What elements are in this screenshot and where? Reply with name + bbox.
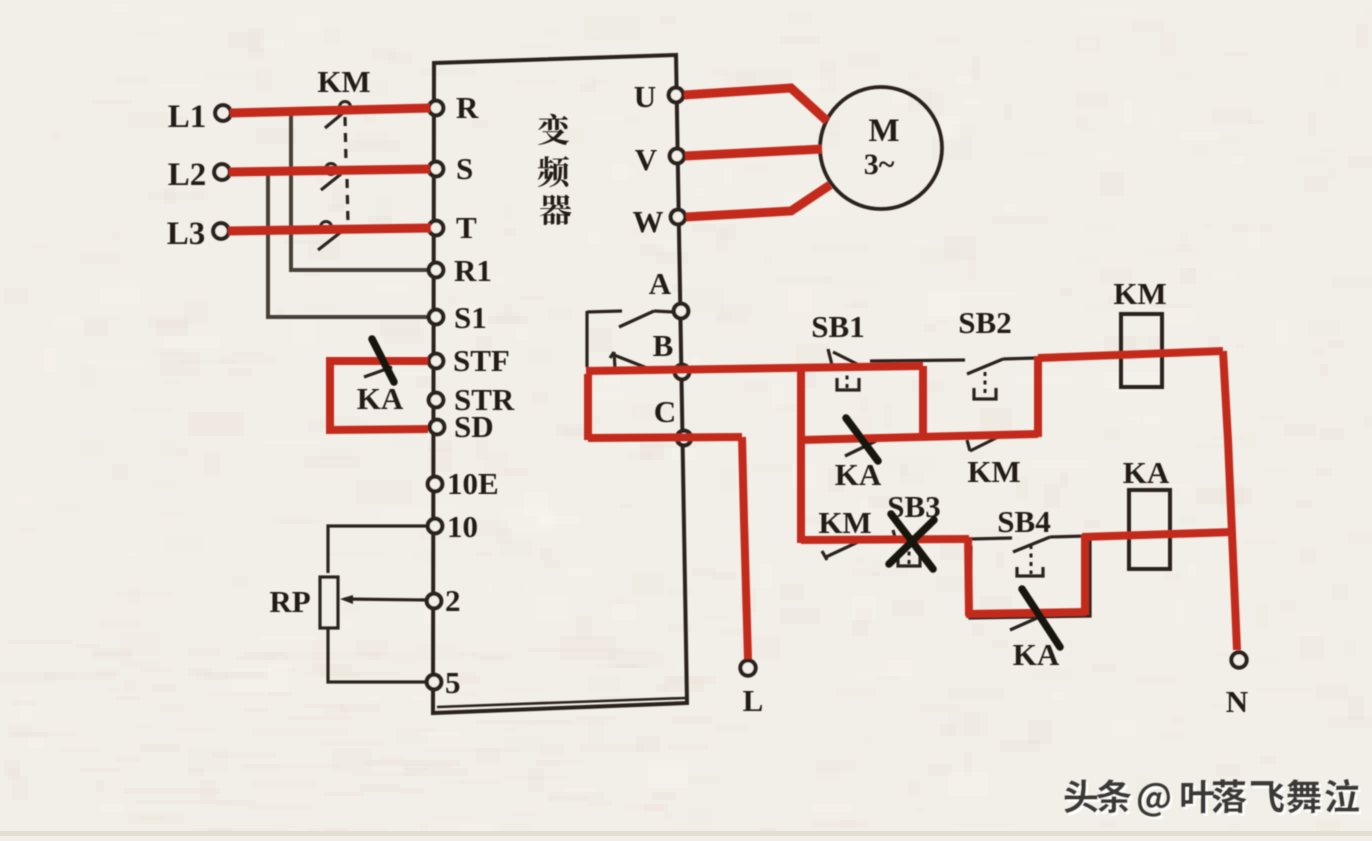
- svg-text:10E: 10E: [447, 466, 499, 501]
- terminal R: [429, 101, 444, 116]
- contactor KM main contact pole 3: [321, 222, 332, 233]
- terminal T: [429, 221, 444, 236]
- wire C row (red): [588, 437, 742, 438]
- node L2 terminal: [214, 164, 230, 180]
- relay contact KM lower: [822, 551, 827, 560]
- wire KA coil row (red): [1082, 532, 1233, 537]
- pushbutton SB1 (NC): [828, 349, 832, 365]
- svg-text:RP: RP: [269, 584, 310, 619]
- wire RP to 5: [328, 628, 427, 682]
- wire L1 to R (red): [230, 108, 430, 113]
- node L3 terminal: [213, 223, 229, 239]
- svg-text:SD: SD: [454, 409, 494, 444]
- wire 10 to RP: [328, 526, 428, 573]
- svg-text:L2: L2: [168, 157, 207, 193]
- correction slash over STF wire: [372, 339, 394, 382]
- svg-text:C: C: [654, 394, 676, 429]
- wire KA row (red): [801, 434, 1038, 440]
- relay contact KA in branch: [1010, 614, 1046, 630]
- potentiometer RP: [320, 577, 338, 628]
- svg-text:L3: L3: [167, 216, 206, 252]
- svg-text:N: N: [1226, 684, 1248, 719]
- wire tap L2 to S1: [268, 174, 429, 317]
- svg-text:5: 5: [445, 665, 461, 700]
- wire B row (red): [586, 366, 923, 371]
- terminal 10E: [428, 477, 443, 492]
- svg-text:SB2: SB2: [958, 305, 1011, 340]
- wire L3 to T (red): [228, 228, 431, 231]
- terminal 2: [427, 594, 442, 609]
- svg-text:L1: L1: [168, 99, 207, 135]
- correction slash over KA branch: [1022, 589, 1060, 647]
- terminal STF: [429, 354, 444, 369]
- svg-text:S: S: [456, 151, 473, 186]
- terminal V: [670, 149, 685, 164]
- svg-text:W: W: [633, 204, 664, 239]
- svg-text:10: 10: [447, 509, 478, 544]
- terminal S1: [429, 310, 444, 325]
- terminal W: [671, 210, 686, 225]
- svg-text:KA: KA: [1123, 455, 1170, 490]
- svg-text:KM: KM: [1113, 276, 1166, 311]
- svg-text:STF: STF: [453, 343, 510, 378]
- contactor KM main contact pole 1: [340, 102, 351, 113]
- terminal STR: [429, 393, 444, 408]
- wire C to L (red): [742, 437, 748, 659]
- contactor KM main contact pole 2: [326, 164, 337, 175]
- terminal U: [669, 88, 684, 103]
- terminal R1: [429, 263, 444, 278]
- svg-text:2: 2: [445, 583, 461, 618]
- svg-text:A: A: [649, 266, 672, 301]
- wire SB4 bypass up (red): [1081, 535, 1089, 615]
- correction slash over KA contact: [846, 418, 878, 461]
- svg-text:M: M: [868, 113, 899, 149]
- relay contact KM (NO): [967, 440, 970, 451]
- wire L2 to S (red): [229, 169, 430, 172]
- node N terminal: [1231, 652, 1246, 667]
- terminal C: [677, 431, 692, 446]
- inverter U1 box (变频器): [433, 55, 687, 713]
- pushbutton SB3 (under X): [893, 530, 896, 541]
- svg-text:S1: S1: [454, 300, 487, 335]
- relay contact KA at STF (blade): [364, 367, 392, 377]
- wire V to motor (red): [685, 149, 822, 156]
- wire SB4 parallel branch (black): [970, 537, 1090, 618]
- svg-text:KM: KM: [818, 505, 871, 540]
- motor M 3~: [820, 87, 942, 209]
- coil KM: [1121, 314, 1162, 387]
- relay output contact at B: [614, 352, 615, 368]
- svg-text:U: U: [634, 79, 656, 114]
- terminal SD: [430, 420, 445, 435]
- relay contact KA (self-hold): [845, 441, 876, 456]
- node L terminal: [740, 660, 755, 675]
- svg-text:R: R: [456, 90, 479, 125]
- svg-text:SB4: SB4: [997, 504, 1050, 539]
- correction X over SB3: [891, 514, 933, 569]
- wire SB1 branch left rail (red): [797, 366, 805, 543]
- pushbutton SB4 (NO): [970, 538, 1012, 539]
- wire STF-KA-SD loop (red): [330, 361, 428, 430]
- svg-text:T: T: [456, 210, 477, 245]
- svg-text:KA: KA: [357, 381, 404, 416]
- wire U to motor (red): [684, 88, 827, 121]
- wire tap L1 to R1: [291, 113, 429, 270]
- svg-text:R1: R1: [454, 253, 492, 288]
- watermark 头条 @叶落飞舞泣: [1067, 782, 1100, 816]
- wire SB4 bypass down (red): [968, 537, 969, 616]
- inverter label 频: [538, 156, 569, 187]
- wiper arrow 2 to RP: [344, 599, 428, 600]
- svg-text:KM: KM: [317, 64, 370, 99]
- wire KA-KM coil riser (red): [1034, 356, 1042, 437]
- contactor KM linkage dashed line: [345, 117, 346, 163]
- wire KM coil row (red): [1038, 351, 1223, 358]
- terminal B: [675, 365, 690, 380]
- node L1 terminal: [215, 105, 231, 121]
- terminal A: [674, 304, 689, 319]
- pushbutton SB2 (NO): [870, 360, 965, 361]
- terminal 5: [427, 675, 442, 690]
- coil KA: [1129, 490, 1170, 569]
- terminal 10: [428, 519, 443, 534]
- wire SB4 bypass bottom (red): [966, 612, 1086, 614]
- svg-text:B: B: [653, 328, 674, 363]
- svg-text:V: V: [635, 142, 658, 177]
- inverter label 变: [538, 114, 569, 145]
- terminal S: [429, 162, 444, 177]
- inverter label 器: [540, 195, 571, 226]
- wire B-C left link (red): [584, 374, 592, 440]
- wire KM row (red): [801, 539, 969, 540]
- inverter U1 box bottom edge (double stroke): [437, 698, 685, 707]
- svg-text:L: L: [743, 683, 764, 718]
- relay output contact at A: [654, 311, 674, 312]
- svg-text:3~: 3~: [864, 148, 895, 181]
- svg-text:KM: KM: [967, 454, 1020, 489]
- wire SB1 branch right rail (red): [919, 366, 927, 438]
- wire to N (red): [1223, 351, 1237, 650]
- wire W to motor (red): [686, 185, 830, 217]
- svg-text:SB1: SB1: [811, 309, 864, 344]
